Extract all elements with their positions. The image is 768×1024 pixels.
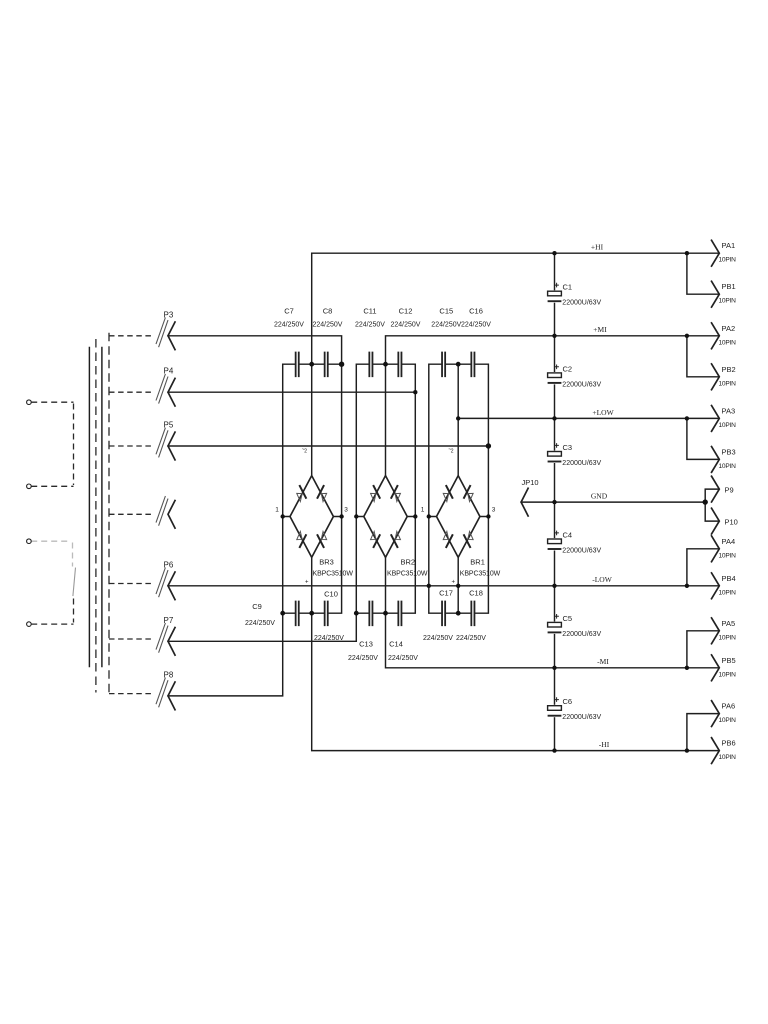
svg-text:10PIN: 10PIN [719, 298, 737, 305]
svg-text:224/250V: 224/250V [423, 635, 453, 642]
svg-text:PB2: PB2 [722, 365, 736, 374]
svg-text:PA3: PA3 [722, 406, 736, 415]
svg-text:224/250V: 224/250V [274, 322, 304, 329]
svg-text:3: 3 [344, 507, 348, 514]
svg-text:P6: P6 [164, 560, 174, 569]
svg-text:C18: C18 [469, 589, 483, 598]
svg-text:22000U/63V: 22000U/63V [562, 631, 601, 638]
svg-text:22000U/63V: 22000U/63V [562, 460, 601, 467]
svg-text:2: 2 [451, 449, 454, 455]
svg-text:P3: P3 [164, 310, 174, 319]
svg-text:KBPC3510W: KBPC3510W [313, 571, 354, 578]
svg-text:+LOW: +LOW [592, 408, 614, 417]
svg-text:C10: C10 [324, 590, 338, 599]
svg-text:C8: C8 [323, 307, 333, 316]
svg-text:C13: C13 [359, 640, 373, 649]
svg-text:C7: C7 [284, 307, 294, 316]
svg-text:224/250V: 224/250V [355, 322, 385, 329]
svg-text:P9: P9 [725, 486, 734, 495]
svg-text:BR1: BR1 [470, 558, 485, 567]
svg-text:10PIN: 10PIN [719, 671, 737, 678]
svg-text:~: ~ [448, 447, 451, 453]
svg-text:KBPC3510W: KBPC3510W [387, 571, 428, 578]
svg-text:P10: P10 [725, 518, 738, 527]
svg-text:P4: P4 [164, 367, 174, 376]
svg-text:224/250V: 224/250V [388, 655, 418, 662]
svg-text:224/250V: 224/250V [348, 655, 378, 662]
svg-text:10PIN: 10PIN [719, 717, 737, 724]
svg-text:+: + [451, 579, 455, 585]
svg-text:10PIN: 10PIN [719, 422, 737, 429]
svg-text:10PIN: 10PIN [719, 257, 737, 264]
svg-text:PA4: PA4 [722, 537, 736, 546]
svg-text:3: 3 [492, 507, 496, 514]
svg-text:PB6: PB6 [722, 739, 736, 748]
svg-text:10PIN: 10PIN [719, 463, 737, 470]
svg-text:10PIN: 10PIN [719, 339, 737, 346]
svg-text:P7: P7 [164, 616, 174, 625]
svg-text:BR2: BR2 [401, 558, 416, 567]
svg-text:22000U/63V: 22000U/63V [562, 548, 601, 555]
svg-text:C17: C17 [439, 589, 453, 598]
svg-text:P8: P8 [164, 670, 174, 679]
svg-text:10PIN: 10PIN [719, 634, 737, 641]
svg-text:KBPC3510W: KBPC3510W [460, 571, 501, 578]
svg-text:PA2: PA2 [722, 324, 736, 333]
svg-text:P5: P5 [164, 421, 174, 430]
svg-text:-HI: -HI [599, 740, 610, 749]
svg-text:PB1: PB1 [722, 282, 736, 291]
svg-text:1: 1 [275, 507, 279, 514]
svg-text:C12: C12 [399, 307, 413, 316]
svg-text:JP10: JP10 [522, 478, 539, 487]
svg-text:C6: C6 [563, 697, 573, 706]
svg-text:22000U/63V: 22000U/63V [562, 714, 601, 721]
svg-text:GND: GND [591, 492, 608, 501]
svg-text:10PIN: 10PIN [719, 552, 737, 559]
svg-text:C15: C15 [439, 307, 453, 316]
svg-text:1: 1 [421, 507, 425, 514]
svg-text:C11: C11 [363, 307, 376, 316]
svg-text:224/250V: 224/250V [245, 620, 275, 627]
svg-text:224/250V: 224/250V [456, 635, 486, 642]
svg-text:224/250V: 224/250V [461, 322, 491, 329]
svg-text:+: + [305, 579, 309, 585]
svg-text:10PIN: 10PIN [719, 589, 737, 596]
svg-text:+HI: +HI [591, 243, 604, 252]
svg-text:22000U/63V: 22000U/63V [562, 300, 601, 307]
svg-text:224/250V: 224/250V [431, 322, 461, 329]
svg-text:C2: C2 [563, 364, 573, 373]
svg-text:22000U/63V: 22000U/63V [562, 381, 601, 388]
svg-text:PB4: PB4 [722, 574, 736, 583]
svg-text:C5: C5 [563, 614, 573, 623]
svg-text:224/250V: 224/250V [391, 322, 421, 329]
svg-text:2: 2 [304, 449, 307, 455]
svg-text:C9: C9 [252, 602, 262, 611]
svg-text:PA6: PA6 [722, 702, 736, 711]
svg-text:PA1: PA1 [722, 241, 736, 250]
svg-text:C3: C3 [563, 443, 573, 452]
svg-text:C16: C16 [469, 307, 483, 316]
svg-text:C1: C1 [563, 283, 573, 292]
svg-text:PB5: PB5 [722, 656, 736, 665]
svg-text:-LOW: -LOW [592, 575, 612, 584]
svg-text:10PIN: 10PIN [719, 380, 737, 387]
svg-text:BR3: BR3 [319, 558, 334, 567]
svg-text:~: ~ [302, 447, 305, 453]
svg-text:+MI: +MI [593, 325, 607, 334]
svg-text:224/250V: 224/250V [313, 322, 343, 329]
svg-text:224/250V: 224/250V [314, 635, 344, 642]
svg-text:PA5: PA5 [722, 619, 736, 628]
svg-text:PB3: PB3 [722, 447, 736, 456]
svg-text:-MI: -MI [597, 657, 609, 666]
svg-text:C4: C4 [563, 531, 573, 540]
svg-text:C14: C14 [389, 640, 403, 649]
svg-text:10PIN: 10PIN [719, 754, 737, 761]
